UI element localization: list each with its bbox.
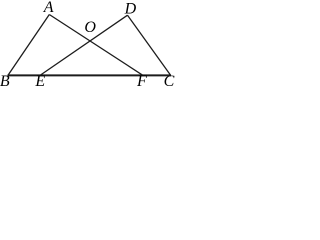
svg-text:A: A [43,0,54,16]
wire DC [128,15,171,75]
svg-text:F: F [136,73,147,88]
svg-text:D: D [124,0,137,17]
svg-text:O: O [84,19,96,36]
svg-text:E: E [34,73,45,88]
svg-text:B: B [0,73,10,88]
wire AF [49,15,143,76]
wire BC baseline [8,74,172,76]
svg-text:C: C [164,73,175,88]
wire DE [40,15,128,75]
wire AB [8,15,49,76]
